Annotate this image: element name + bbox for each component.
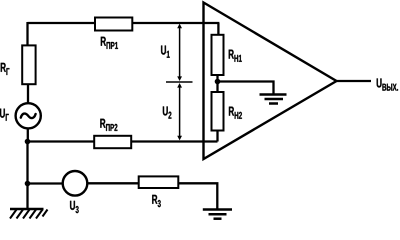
- resistor RН2: [212, 92, 224, 131]
- label RГ: [1, 63, 10, 75]
- resistor RПР1: [95, 18, 132, 31]
- label U2: [163, 106, 172, 118]
- resistor RПР2: [94, 136, 131, 148]
- wire left vertical lower: [26, 142, 28, 210]
- wire bottom rail: [28, 140, 218, 142]
- wire left vertical from top rail to RГ: [26, 22, 28, 46]
- label UГ: [0, 109, 9, 121]
- label U1: [161, 46, 170, 58]
- source UГ circle: [16, 103, 41, 128]
- wire node to mid ground: [218, 82, 274, 95]
- label RН2: [229, 107, 242, 119]
- label RН1: [229, 50, 242, 62]
- node junction dot between RН1 and RН2: [215, 79, 221, 85]
- sine wave inside UГ: [21, 114, 36, 119]
- node junction dot left/bottom-rail: [25, 139, 31, 145]
- resistor RГ: [22, 45, 35, 84]
- label UВЫХ.: [377, 78, 398, 90]
- op-amp U1 triangle: [204, 3, 337, 160]
- label RПР2: [100, 119, 117, 131]
- wire top rail down to RН1: [217, 23, 219, 36]
- label R3: [152, 195, 161, 207]
- wire output: [337, 80, 372, 82]
- label RПР1: [101, 37, 118, 49]
- resistor R3: [139, 176, 179, 188]
- ground (signal ground near RН): [260, 95, 287, 104]
- arrow U2 (double-headed, mid tick to bottom rail): [177, 83, 182, 140]
- wire UГ to bottom rail: [27, 128, 29, 142]
- wire U3 to R3: [87, 182, 139, 184]
- source U3 circle: [63, 171, 88, 196]
- node junction dot lower-left: [25, 181, 31, 187]
- mid tick between U1 and U2: [166, 81, 193, 83]
- wire lower branch to U3: [28, 182, 63, 184]
- wire RГ to UГ: [27, 84, 29, 103]
- wire top rail: [28, 22, 220, 24]
- earth ground bottom-left: [10, 209, 48, 219]
- wire R3 to ground: [179, 183, 218, 208]
- ground bottom-right: [203, 210, 232, 219]
- resistor RН1: [212, 35, 224, 75]
- wire RН1 to RН2: [216, 75, 218, 93]
- label U3: [70, 201, 79, 213]
- arrow U1 (double-headed, top rail to mid tick): [177, 24, 182, 81]
- wire RН2 to bottom rail: [216, 131, 218, 142]
